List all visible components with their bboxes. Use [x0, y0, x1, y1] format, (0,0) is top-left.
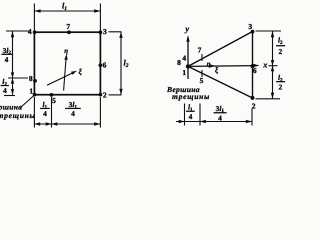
- node5 tick: [201, 70, 203, 77]
- arrowhead 3l2/4 bottom: [11, 72, 14, 78]
- arrowhead xi axis: [210, 64, 216, 67]
- corner1 left extension: [4, 95, 15, 97]
- arrowhead l2 bottom: [119, 89, 122, 95]
- arrowhead l1 right: [94, 9, 100, 12]
- svg-text:l2: l2: [123, 59, 128, 70]
- svg-text:трещины: трещины: [172, 92, 210, 101]
- bottom extension below origin: [184, 104, 186, 126]
- node7 tick: [201, 54, 203, 61]
- svg-text:4: 4: [28, 27, 32, 36]
- fraction l1/4 bar: [40, 107, 49, 110]
- arrowhead l2/2 upper bottom: [271, 60, 274, 66]
- x-level extension: [269, 65, 278, 67]
- arrowhead xi: [71, 71, 77, 75]
- node 2 dot: [99, 93, 103, 97]
- svg-text:η: η: [64, 47, 68, 55]
- node 3 dot right: [251, 30, 255, 34]
- arrowhead outside l1/4 right-pointing: [179, 120, 185, 123]
- x axis line: [188, 65, 257, 68]
- node8 extension dash: [8, 77, 28, 79]
- node 6 dot right: [251, 64, 255, 68]
- svg-text:6: 6: [103, 61, 107, 70]
- arrowhead y axis: [186, 36, 189, 42]
- bottom extension below corner1: [33, 97, 35, 128]
- svg-text:1: 1: [182, 68, 186, 77]
- node3 top extension: [256, 30, 282, 32]
- arrowhead l2/4 bottom: [11, 89, 14, 95]
- bottom extension below node5: [199, 104, 201, 126]
- svg-text:4: 4: [182, 54, 186, 63]
- fraction 3l1/4 right bar: [214, 111, 227, 114]
- svg-text:4: 4: [71, 109, 75, 118]
- arrowhead l1 left: [34, 9, 40, 12]
- arrowhead l2 top: [119, 32, 122, 38]
- arrowhead 3l1/4 right: [246, 120, 252, 123]
- fraction l2/4 bar: [1, 84, 9, 87]
- svg-text:7: 7: [66, 22, 70, 31]
- node 2 dot right: [251, 96, 255, 100]
- arrowhead eta: [64, 54, 67, 60]
- dim l2/2 upper line: [272, 31, 274, 66]
- svg-text:4: 4: [43, 109, 47, 118]
- bottom extension below node2: [251, 109, 253, 126]
- arrowhead l2/4 top: [11, 78, 14, 84]
- arrowhead l1/4 left: [34, 122, 40, 125]
- svg-text:ξ: ξ: [215, 66, 219, 75]
- svg-text:8: 8: [177, 58, 181, 67]
- svg-text:4: 4: [189, 112, 193, 121]
- svg-text:ξ: ξ: [79, 67, 83, 76]
- arrowhead l2/2 lower top: [271, 66, 274, 72]
- fraction 3l2/4 bar: [2, 53, 13, 56]
- node 6 dot: [99, 63, 103, 67]
- arrowhead 3l2/4 top: [11, 31, 14, 37]
- node 7 dot: [67, 30, 71, 34]
- upper edge to node3: [188, 32, 253, 67]
- bottom dim line right diagram: [176, 121, 252, 123]
- dim l1 line: [34, 10, 100, 12]
- fraction l2/2 lower bar: [276, 80, 285, 83]
- svg-text:η: η: [207, 60, 211, 68]
- svg-text:3: 3: [248, 22, 252, 31]
- dim l1 extension line left: [33, 4, 35, 32]
- svg-text:x: x: [262, 61, 267, 70]
- arrowhead 3l1/4 left: [52, 122, 58, 125]
- left dim l2/4 line: [12, 78, 14, 95]
- node 5 dot: [50, 93, 54, 97]
- node 4 dot: [33, 30, 37, 34]
- svg-text:2: 2: [252, 101, 256, 110]
- svg-text:2: 2: [279, 82, 283, 91]
- arrowhead l2/2 lower bottom: [271, 93, 274, 99]
- node 3 dot: [99, 30, 103, 34]
- bottom extension below node5: [51, 97, 53, 128]
- svg-text:4: 4: [218, 113, 222, 122]
- svg-text:4: 4: [3, 86, 7, 95]
- bottom dim line: [34, 123, 100, 125]
- fraction 3l1/4 bar: [65, 107, 80, 110]
- dim l2/2 lower line: [272, 66, 274, 99]
- svg-text:2: 2: [279, 47, 283, 56]
- arrowhead 3l1/4 right: [94, 122, 100, 125]
- svg-text:5: 5: [200, 76, 204, 85]
- crack leader line: [20, 96, 34, 108]
- svg-text:2: 2: [103, 91, 107, 100]
- node2 bottom extension: [256, 98, 281, 100]
- xi axis arrow line: [47, 72, 74, 85]
- svg-text:1: 1: [29, 86, 33, 95]
- left dim column line 3l2/4: [12, 31, 14, 78]
- svg-text:5: 5: [52, 96, 56, 105]
- lower edge to node2: [188, 66, 253, 98]
- arrowhead l1/4 right: [46, 122, 52, 125]
- element square outline: [34, 32, 100, 94]
- svg-text:8: 8: [29, 74, 33, 83]
- svg-text:4: 4: [5, 55, 9, 64]
- node3 extension dash: [109, 31, 122, 33]
- node 1 dot: [33, 93, 37, 97]
- dim l1 extension line right: [99, 4, 101, 32]
- arrowhead 3l1/4 left: [200, 120, 206, 123]
- eta axis arrow line: [64, 57, 67, 91]
- svg-text:l2: l2: [278, 35, 283, 45]
- svg-text:6: 6: [253, 66, 257, 75]
- bottom extension below corner2: [99, 97, 101, 128]
- left dim column top extension: [6, 30, 30, 32]
- node2 extension dash: [109, 94, 122, 96]
- y axis line: [187, 37, 189, 80]
- dim l2 right line: [120, 32, 122, 95]
- svg-text:трещины: трещины: [0, 111, 36, 120]
- vertical edge 3-2: [252, 32, 254, 99]
- fraction l2/2 upper bar: [276, 44, 285, 47]
- arrowhead x axis: [253, 64, 259, 67]
- node 8 dot: [33, 79, 37, 83]
- arrowhead l2/2 upper top: [271, 31, 274, 37]
- svg-text:y: y: [184, 25, 189, 34]
- origin node dot: [186, 64, 190, 68]
- svg-text:7: 7: [198, 46, 202, 55]
- svg-text:3: 3: [103, 27, 107, 36]
- fraction l1/4 right bar: [186, 110, 194, 113]
